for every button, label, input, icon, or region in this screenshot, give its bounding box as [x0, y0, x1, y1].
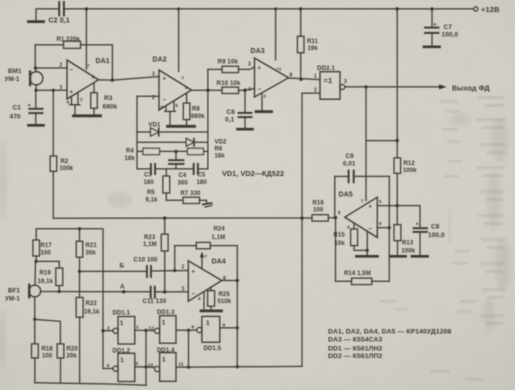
microphone BM1 [5, 68, 43, 85]
capacitor C11 [143, 287, 189, 305]
svg-text:R12: R12 [404, 161, 416, 167]
svg-text:1: 1 [136, 325, 139, 331]
svg-text:−: − [70, 68, 74, 74]
svg-text:3: 3 [344, 79, 347, 85]
svg-text:VD2: VD2 [215, 140, 228, 146]
svg-text:9: 9 [223, 322, 226, 328]
wire line A [41, 284, 151, 294]
svg-text:1: 1 [80, 97, 83, 102]
svg-text:+12В: +12В [481, 5, 500, 14]
wire BM1 top to DA1 inverting input [34, 66, 67, 71]
svg-text:+: + [433, 22, 437, 28]
wire DD2.1 input 2 [302, 92, 320, 94]
node (R1/DA1 output) [111, 78, 114, 81]
svg-text:7: 7 [361, 199, 364, 204]
svg-text:100,0: 100,0 [428, 232, 445, 239]
ground (C1) [29, 124, 44, 127]
svg-text:R6: R6 [215, 147, 223, 153]
svg-text:R21: R21 [86, 243, 98, 249]
op-amp DA2 [152, 57, 192, 111]
svg-text:100: 100 [313, 208, 324, 214]
node (DA5 output) [334, 216, 337, 219]
svg-text:19k: 19k [308, 46, 319, 52]
wire +12V top rail [36, 9, 474, 21]
ground (R7) [203, 200, 212, 207]
resistor R25 [208, 287, 232, 310]
svg-text:VD1, VD2—КД522: VD1, VD2—КД522 [222, 169, 284, 178]
svg-text:DD1.3: DD1.3 [157, 310, 175, 316]
wire bottom-left rail [35, 383, 146, 385]
svg-text:DA1, DA2, DA4, DA5 — КР140УД12: DA1, DA2, DA4, DA5 — КР140УД1208 [328, 329, 451, 336]
svg-text:C9: C9 [346, 153, 355, 160]
svg-text:DA4: DA4 [212, 259, 226, 266]
svg-text:DA2: DA2 [153, 57, 167, 64]
svg-text:1,1M: 1,1M [212, 235, 226, 241]
svg-text:C1: C1 [13, 105, 22, 112]
svg-text:+: + [416, 222, 419, 228]
text parts list [328, 329, 451, 361]
svg-text:9,1k: 9,1k [146, 198, 159, 204]
svg-text:10: 10 [148, 362, 154, 368]
diode VD2 [137, 138, 227, 146]
wire DD1.2 input [103, 363, 113, 369]
svg-text:−: − [258, 87, 262, 93]
resistor R17 [33, 240, 52, 261]
microphone BF1 [5, 285, 41, 303]
capacitor C4 [169, 151, 188, 186]
wire C9/R14 right leg to DA5 inverting input [377, 176, 391, 281]
svg-text:4: 4 [347, 225, 350, 230]
wire DD1.2 out to DD1.4 [135, 361, 155, 368]
svg-text:5: 5 [136, 361, 139, 367]
svg-text:R24: R24 [214, 227, 226, 233]
wire DD1.1 input [101, 326, 113, 333]
diode VD1 [137, 123, 208, 137]
logic gate DD2.1 (XOR) [314, 65, 347, 99]
resistor R16 [312, 201, 336, 222]
resistor R10 [217, 80, 255, 93]
DA2 balance pins [161, 101, 179, 126]
resistor R24 feedback [173, 227, 237, 281]
wire DA2 inverting input to network [137, 96, 159, 132]
wire main bus (y=218) [53, 216, 312, 219]
wire DA4 output [222, 279, 239, 282]
op-amp DA3 [248, 48, 293, 97]
svg-text:180: 180 [144, 180, 155, 186]
wire DA4 out down to DD1.5/rail [236, 281, 239, 369]
svg-text:5: 5 [379, 199, 382, 204]
svg-text:1: 1 [120, 320, 124, 327]
svg-text:=1: =1 [324, 76, 333, 85]
svg-text:−: − [192, 292, 196, 298]
svg-text:8: 8 [338, 210, 341, 215]
resistor R18 [32, 344, 54, 383]
svg-text:3: 3 [182, 287, 185, 293]
svg-text:2: 2 [107, 326, 110, 332]
svg-text:4: 4 [67, 100, 70, 105]
svg-text:R1 220k: R1 220k [57, 37, 81, 43]
resistor R2 [50, 90, 74, 218]
resistor R22 [76, 271, 100, 382]
wire DA1 out to DA2 [99, 77, 160, 81]
svg-text:R9 10k: R9 10k [218, 59, 239, 66]
svg-text:+: + [163, 77, 167, 83]
ground (C8) [412, 255, 428, 258]
svg-text:DD1.5: DD1.5 [204, 346, 222, 352]
svg-text:7: 7 [205, 254, 208, 259]
svg-text:R17: R17 [41, 243, 53, 249]
node (bus / DA1 supply) [85, 7, 88, 10]
svg-text:360: 360 [178, 181, 189, 187]
wire DD1.3 output [176, 329, 190, 332]
svg-text:C6: C6 [227, 109, 236, 116]
svg-text:DD1.1: DD1.1 [113, 311, 131, 317]
DA3 strobe pin to ground [262, 93, 267, 111]
wire DD1.5 input [189, 325, 197, 331]
svg-text:DA1: DA1 [96, 58, 110, 65]
svg-text:100k: 100k [403, 168, 417, 174]
svg-text:30k: 30k [86, 251, 97, 257]
svg-text:C4: C4 [179, 173, 187, 179]
inverter DD1.5 [197, 316, 222, 352]
wire DD1.4 output to rail [176, 362, 189, 368]
svg-text:R3: R3 [104, 95, 113, 102]
ground (C6) [238, 128, 253, 131]
svg-text:−: − [369, 227, 373, 233]
wire DD1.1 out to DD1.3 [135, 325, 155, 333]
svg-text:1: 1 [314, 74, 317, 80]
resistor R20 [57, 344, 78, 382]
svg-text:R7 330: R7 330 [181, 191, 202, 197]
svg-text:R25: R25 [219, 292, 231, 298]
svg-text:R11: R11 [307, 39, 319, 45]
svg-text:1: 1 [120, 357, 124, 364]
resistor R5 [146, 169, 170, 204]
node (R23 to line A) [163, 290, 166, 293]
svg-text:4: 4 [161, 105, 164, 110]
DA4 ground pin [198, 292, 204, 311]
wire DD1.5in down to rail [187, 330, 190, 369]
wire DA2 output [192, 89, 223, 92]
svg-text:+: + [258, 66, 262, 72]
ground (DA1) [74, 114, 101, 117]
wire DD1.5 output [220, 322, 238, 328]
svg-text:+: + [70, 90, 74, 96]
resistor R23 [143, 218, 168, 292]
svg-text:C2 0,1: C2 0,1 [49, 18, 70, 25]
svg-text:5: 5 [176, 103, 179, 108]
DA4 supply arrow [200, 252, 208, 269]
svg-text:19,1k: 19,1k [84, 310, 100, 316]
svg-text:3: 3 [60, 85, 63, 91]
svg-text:0,01: 0,01 [343, 161, 356, 168]
svg-text:+: + [28, 103, 31, 109]
svg-text:680k: 680k [191, 114, 205, 120]
capacitor C1 [10, 90, 43, 124]
ground (C7) [424, 45, 440, 48]
svg-text:R4: R4 [126, 149, 134, 155]
svg-text:1: 1 [206, 320, 210, 327]
wire line B (to C10) [80, 263, 147, 272]
svg-text:R2: R2 [61, 159, 69, 165]
node (DA5 + input / R12-R13) [396, 204, 399, 207]
svg-text:6: 6 [92, 75, 95, 80]
ground (DA3) [256, 110, 272, 113]
svg-text:C7: C7 [444, 24, 453, 31]
wire DD1.3in-DD1.4in vertical [144, 330, 147, 385]
svg-text:R10 10k: R10 10k [217, 80, 242, 87]
svg-text:DA5: DA5 [339, 192, 353, 199]
svg-text:6: 6 [185, 85, 188, 90]
svg-text:R14 1,5M: R14 1,5M [344, 271, 371, 277]
svg-text:C8: C8 [431, 224, 440, 231]
svg-text:C10 100: C10 100 [134, 257, 159, 264]
resistor R13 [394, 225, 416, 256]
capacitor C10 [134, 257, 189, 278]
resistor R19 [38, 261, 63, 291]
resistor R15 [334, 223, 368, 250]
resistor R6 [188, 147, 226, 160]
svg-text:R16: R16 [313, 201, 325, 207]
ground (top-left, C2) [29, 20, 44, 23]
svg-text:100: 100 [41, 251, 52, 257]
svg-text:8: 8 [192, 325, 195, 331]
svg-text:R20: R20 [67, 347, 79, 353]
svg-text:100,0: 100,0 [442, 32, 459, 39]
svg-text:180: 180 [197, 180, 208, 186]
capacitor C9 [335, 153, 390, 182]
page smudges [0, 114, 511, 370]
capacitor C8 [377, 206, 445, 256]
resistor R14 [336, 271, 390, 285]
wire BF1 top [34, 261, 37, 285]
resistor R1 [35, 37, 112, 80]
svg-text:R22: R22 [86, 301, 98, 307]
svg-text:+1: +1 [276, 67, 282, 72]
node (R17/R19/BF1) [34, 260, 59, 263]
wire BM1 bottom node [34, 85, 67, 92]
capacitor C3 (bottom row) [137, 164, 194, 186]
node (R21/R22/line B) [78, 270, 81, 273]
svg-text:4: 4 [107, 363, 110, 369]
svg-text:−: − [163, 98, 167, 104]
svg-text:4: 4 [248, 87, 251, 93]
svg-text:Выход ФД: Выход ФД [452, 84, 490, 93]
svg-text:7: 7 [87, 64, 90, 69]
wire BF1 bottom [33, 297, 60, 344]
resistor R21 [76, 227, 97, 271]
svg-text:DD1.2: DD1.2 [113, 349, 131, 355]
capacitor C6 [225, 90, 252, 128]
wire DA3 supply [274, 7, 277, 60]
svg-text:C5: C5 [198, 173, 206, 179]
feedback network box verticals [137, 69, 208, 168]
resistor R9 [208, 59, 255, 73]
svg-text:680k: 680k [103, 104, 118, 111]
op-amp DA1 [60, 58, 110, 99]
wire DD2.1 pin2 / gates bus vertical [300, 93, 303, 366]
svg-text:1: 1 [162, 320, 166, 327]
svg-text:7: 7 [182, 76, 185, 81]
inverter DD1.2 [113, 349, 135, 382]
capacitor C5 [194, 164, 208, 186]
resistor R7 [166, 191, 206, 204]
terminal +12V [474, 5, 500, 14]
svg-text:VD1: VD1 [149, 123, 162, 129]
svg-text:3: 3 [248, 62, 251, 68]
svg-text:3: 3 [152, 72, 155, 78]
ground (DA5) [357, 255, 378, 258]
svg-text:12: 12 [149, 326, 155, 332]
wire DA2 supply [177, 7, 180, 71]
svg-text:510k: 510k [218, 299, 232, 305]
svg-text:DD1.4: DD1.4 [157, 348, 175, 354]
inverter DD1.3 [155, 310, 177, 343]
svg-text:18k: 18k [125, 156, 136, 162]
resistor R3 [91, 84, 118, 116]
DA5 ground pin [347, 225, 369, 256]
svg-text:УМ-1: УМ-1 [5, 76, 20, 83]
svg-text:2: 2 [182, 265, 185, 271]
capacitor C2 [49, 2, 70, 25]
svg-text:C3: C3 [144, 173, 152, 179]
op-amp DA4 [182, 259, 227, 302]
svg-text:1: 1 [162, 357, 166, 364]
svg-text:R8: R8 [192, 107, 200, 113]
svg-text:DD2.1: DD2.1 [317, 65, 335, 72]
svg-text:+: + [369, 205, 373, 211]
svg-text:18k: 18k [215, 154, 226, 160]
text VD1,VD2 type [222, 169, 284, 178]
bleed-through ghost text [380, 96, 506, 381]
svg-text:19,1k: 19,1k [38, 279, 54, 285]
DA1 balance pins to ground [67, 93, 84, 116]
svg-text:100k: 100k [60, 166, 74, 172]
svg-text:20k: 20k [67, 354, 78, 360]
svg-text:2: 2 [264, 94, 267, 99]
resistor R11 [297, 7, 318, 79]
wire bias rail (R17/R21 top) [36, 229, 103, 369]
op-amp DA5 (points left) [338, 192, 382, 238]
resistor R4 [125, 148, 208, 162]
svg-text:10k: 10k [335, 241, 346, 247]
svg-text:C11 130: C11 130 [143, 298, 167, 305]
svg-text:+: + [192, 270, 196, 276]
svg-text:6: 6 [379, 221, 382, 226]
inverter DD1.4 [155, 348, 177, 381]
svg-text:DA3 — К554СА3: DA3 — К554СА3 [328, 337, 383, 344]
wire DA5 supply branch [366, 87, 399, 201]
inverter DD1.1 [113, 311, 135, 345]
svg-text:4: 4 [198, 296, 201, 301]
wire C9 left leg to output node [334, 176, 336, 217]
svg-text:DD1 — К561ЛН2: DD1 — К561ЛН2 [328, 346, 383, 353]
svg-text:R19: R19 [40, 271, 52, 277]
svg-text:BM1: BM1 [8, 68, 22, 75]
ground (DA4) [201, 309, 222, 312]
resistor R8 [183, 94, 205, 126]
svg-text:470: 470 [10, 114, 21, 121]
svg-text:R5: R5 [147, 190, 155, 196]
resistor R12 [394, 158, 417, 225]
svg-text:A: A [120, 284, 125, 291]
svg-text:100k: 100k [402, 249, 416, 255]
svg-text:DA3: DA3 [251, 48, 265, 55]
svg-text:Б: Б [120, 263, 125, 270]
svg-text:R18: R18 [42, 347, 54, 353]
ground (R13) [391, 255, 406, 258]
wire FD output [345, 84, 490, 93]
svg-text:R13: R13 [402, 241, 414, 247]
svg-text:DD2 — К561ЛП2: DD2 — К561ЛП2 [328, 353, 383, 360]
svg-text:BF1: BF1 [8, 288, 20, 295]
capacitor C7 [425, 7, 459, 46]
wire feedback loop vertical left [335, 218, 337, 282]
svg-text:R23: R23 [144, 235, 156, 241]
wire DA1 supply [85, 9, 87, 70]
svg-text:0,1: 0,1 [225, 117, 235, 124]
svg-text:1,1M: 1,1M [143, 242, 157, 248]
wire gates output rail to bus vertical [189, 365, 303, 368]
node (network center) [174, 150, 177, 153]
svg-text:УМ-1: УМ-1 [5, 296, 20, 303]
ground (DA2) [168, 125, 195, 128]
svg-text:100: 100 [42, 354, 53, 360]
wire +12 right vertical [396, 7, 399, 158]
svg-text:11: 11 [179, 362, 185, 368]
wire DA3 output [289, 78, 321, 81]
svg-text:2: 2 [60, 63, 63, 69]
